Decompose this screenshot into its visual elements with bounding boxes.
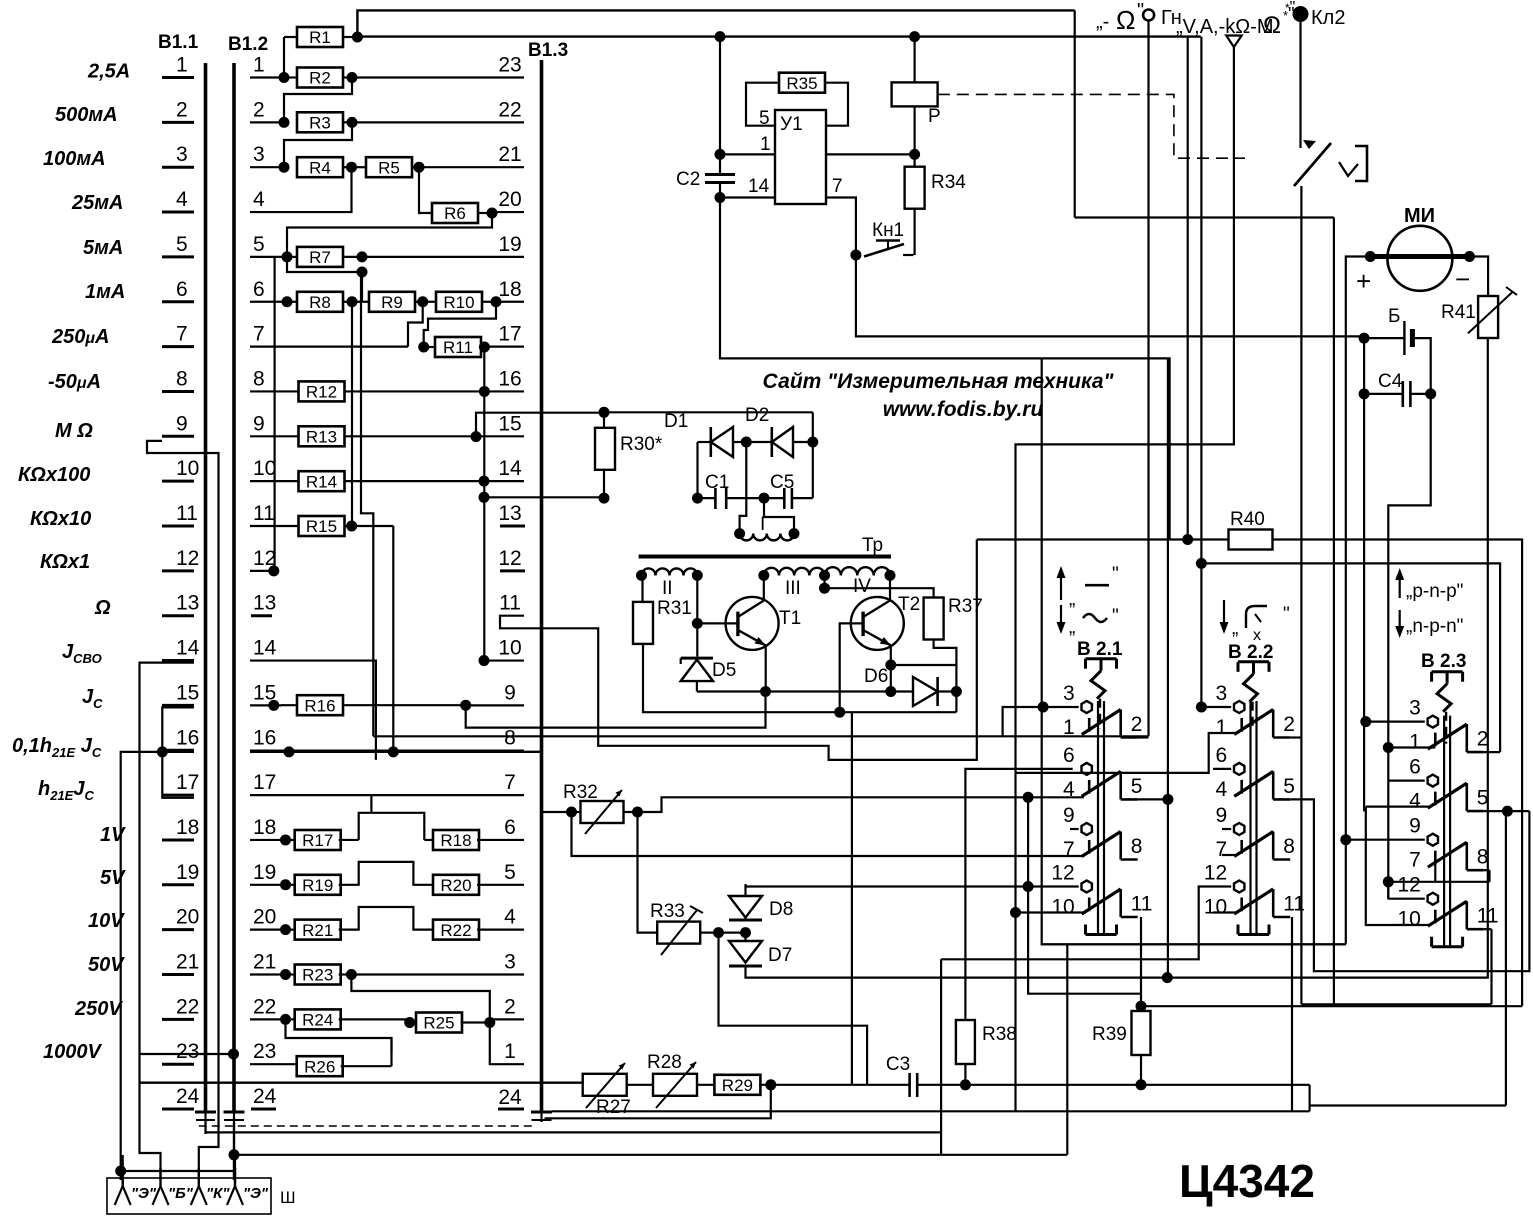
svg-text:Т2: Т2	[898, 594, 920, 615]
svg-text:„: „	[1069, 617, 1075, 638]
wire R37 bottom jog	[934, 640, 957, 713]
bus B1.1 vertical	[204, 63, 208, 1112]
wire row11 B1.2	[250, 525, 299, 527]
wire R17 stair	[359, 813, 425, 840]
wire B1.3 row10	[484, 659, 524, 661]
bus B1.2 tail to socket	[233, 1122, 235, 1180]
wire R24 jog down	[286, 1019, 392, 1051]
svg-text:2: 2	[253, 98, 265, 121]
junction Kn1 left	[850, 250, 861, 261]
wire R23 stair down	[351, 975, 489, 1023]
wire row9 B1.2	[250, 435, 299, 437]
wire pin5 loop	[746, 83, 780, 126]
wire row16 to socket	[121, 752, 194, 1180]
svg-text:R4: R4	[309, 158, 331, 177]
wire R13 line right	[604, 411, 813, 413]
svg-text:24: 24	[253, 1085, 277, 1108]
wire x1043 lower	[1042, 707, 1346, 944]
transistor T2	[851, 597, 904, 650]
wire C2 top drop	[719, 37, 721, 155]
wire meter left	[1346, 257, 1371, 945]
svg-text:R22: R22	[440, 921, 471, 940]
svg-text:R11: R11	[443, 338, 473, 357]
svg-text:R21: R21	[302, 921, 333, 940]
B2.2 pin11 drop	[1291, 917, 1293, 1111]
svg-text:Кн1: Кн1	[872, 220, 904, 241]
svg-text:1: 1	[253, 54, 265, 77]
svg-text:У1: У1	[780, 114, 803, 135]
resistor R25	[416, 1013, 462, 1033]
svg-text:КΩх1: КΩх1	[40, 551, 90, 573]
svg-text:Ω: Ω	[1263, 12, 1281, 39]
junction R8 out	[347, 296, 358, 307]
svg-text:R19: R19	[302, 876, 333, 895]
left range labels column	[12, 61, 130, 1064]
junction y1054 on B1.2 bus	[228, 1049, 239, 1060]
wire row5 drop	[274, 257, 276, 571]
wire R6 return	[287, 213, 492, 257]
wire B1.3 row20	[492, 211, 524, 213]
resistor R9	[352, 301, 369, 303]
svg-text:R18: R18	[440, 831, 471, 850]
wire T2 collector	[889, 575, 891, 600]
wire y563 line	[1201, 563, 1500, 752]
svg-text:4: 4	[1409, 790, 1421, 813]
resistor R22	[433, 920, 479, 940]
wire pin1	[720, 153, 775, 155]
svg-text:9: 9	[1409, 815, 1421, 838]
svg-text:КΩх100: КΩх100	[18, 464, 90, 486]
junction row21	[280, 969, 291, 980]
selector B2.3 frame	[1432, 670, 1463, 673]
wire row15 B1.2	[250, 704, 274, 706]
svg-text:5: 5	[176, 233, 188, 256]
wire T1 collector	[763, 575, 765, 600]
junction R9 out	[417, 296, 428, 307]
svg-text:3: 3	[1216, 682, 1228, 705]
svg-text:15: 15	[176, 681, 199, 704]
svg-text:Сайт "Измерительная техника": Сайт "Измерительная техника"	[762, 370, 1114, 393]
svg-text:B1.3: B1.3	[528, 40, 568, 61]
svg-text:5: 5	[504, 861, 516, 884]
wire P to R34	[913, 106, 915, 167]
svg-text:": "	[1112, 606, 1119, 627]
svg-text:D8: D8	[769, 899, 793, 920]
wire top bus lower y37	[357, 35, 1200, 37]
svg-text:20: 20	[498, 188, 521, 211]
svg-text:1: 1	[504, 1040, 516, 1063]
junction R32 out	[632, 807, 643, 818]
wire meter right	[1470, 257, 1489, 297]
switch wafer B1.1 contacts 1-24	[162, 54, 200, 1110]
junction row6	[282, 296, 293, 307]
wire row22	[250, 1018, 286, 1020]
wire R7par to R9	[361, 272, 363, 302]
junction T1 emitter	[760, 686, 771, 697]
svg-text:МИ: МИ	[1404, 205, 1435, 227]
wire y959 run	[941, 887, 1231, 960]
svg-text:R5: R5	[378, 158, 400, 177]
socket pin Э2	[234, 1168, 236, 1186]
bus B1.2 bottom T-cap	[224, 1111, 245, 1114]
wire R40 right	[1273, 540, 1523, 1007]
junction row18	[280, 834, 291, 845]
wire D1 drop	[696, 442, 698, 498]
B2.2 mode arrow	[1223, 600, 1225, 630]
svg-text:17: 17	[498, 323, 521, 346]
svg-text:17: 17	[176, 771, 199, 794]
junction R4 out	[346, 162, 357, 173]
svg-text:10: 10	[1204, 896, 1227, 919]
svg-text:R34: R34	[931, 172, 966, 193]
capacitor C4	[1402, 381, 1405, 407]
svg-text:2: 2	[1477, 728, 1489, 751]
svg-text:2: 2	[1131, 713, 1143, 736]
svg-text:R29: R29	[722, 1076, 753, 1095]
svg-text:Тр: Тр	[862, 535, 883, 556]
junction R14 out	[479, 476, 490, 487]
svg-text:R14: R14	[306, 472, 337, 491]
svg-text:18: 18	[253, 816, 276, 839]
transistor T1	[726, 597, 779, 650]
svg-text:22: 22	[176, 995, 199, 1018]
junction R11 out	[479, 342, 490, 353]
wire row19	[250, 884, 286, 886]
svg-text:х: х	[1253, 627, 1261, 644]
svg-text:4: 4	[176, 188, 188, 211]
junction C2 top line	[715, 31, 726, 42]
svg-text:23: 23	[253, 1040, 276, 1063]
wire R29 drop	[545, 1085, 771, 1119]
junction R39 top	[1136, 1001, 1147, 1012]
svg-text:R24: R24	[302, 1011, 333, 1030]
B2.1 mode arrows	[1060, 570, 1062, 600]
svg-text:21: 21	[498, 143, 521, 166]
svg-text:R40: R40	[1230, 509, 1265, 530]
svg-text:11: 11	[1131, 893, 1153, 916]
wire pin14	[720, 196, 775, 198]
svg-text:20: 20	[176, 906, 199, 929]
svg-text:B 2.1: B 2.1	[1077, 639, 1123, 660]
junction D7line x1168	[1162, 972, 1173, 983]
resistor R4	[297, 157, 343, 177]
junction lower parallel	[357, 267, 368, 278]
resistor R10	[423, 301, 436, 303]
wire row17 B1.2 / B1.3 row7	[250, 794, 371, 796]
svg-text:21: 21	[176, 951, 199, 974]
junction C3-R38	[960, 1079, 971, 1090]
junction R3 out	[347, 117, 358, 128]
svg-text:II: II	[662, 578, 673, 599]
svg-text:-50μА: -50μА	[48, 371, 101, 393]
svg-text:6: 6	[1063, 744, 1075, 767]
resistor R6	[432, 203, 478, 223]
wire y1054 link	[140, 1053, 234, 1055]
wire R2-R3 jog	[284, 78, 352, 123]
svg-text:1мА: 1мА	[85, 281, 125, 303]
junction R2 out	[347, 72, 358, 83]
svg-text:24: 24	[176, 1085, 200, 1108]
B2.3 pad12 wire	[1388, 898, 1425, 900]
bus B1.3 vertical	[540, 60, 544, 1112]
B2.3 pin4 wire	[1366, 805, 1430, 807]
switch Kl2	[1294, 143, 1331, 186]
capacitor C3	[908, 1073, 911, 1097]
svg-text:"Э": "Э"	[243, 1185, 269, 1202]
svg-text:R38: R38	[982, 1024, 1017, 1045]
wire R7 parallel lower	[287, 257, 362, 272]
svg-text:3: 3	[1409, 697, 1421, 720]
svg-text:8: 8	[1283, 835, 1295, 858]
junction R7 out	[357, 251, 368, 262]
wire B1.3 row23	[352, 76, 524, 78]
wire D2 right drop	[812, 412, 814, 442]
svg-text:3: 3	[176, 143, 188, 166]
svg-text:D7: D7	[768, 945, 792, 966]
junction row19	[280, 879, 291, 890]
svg-text:R31: R31	[657, 598, 692, 619]
wire C4 drop	[1388, 394, 1430, 900]
B2.1 pin2 riser	[1138, 736, 1149, 738]
B2.3 pin11 ext	[1484, 928, 1492, 930]
svg-text:R23: R23	[302, 966, 333, 985]
svg-text:19: 19	[176, 861, 199, 884]
junction D2 out	[807, 437, 818, 448]
junction pin14	[715, 192, 726, 203]
svg-text:„: „	[1069, 589, 1075, 610]
svg-text:*": *"	[1285, 0, 1295, 16]
svg-text:": "	[1283, 604, 1290, 625]
junction C4 right	[1425, 388, 1436, 399]
svg-text:250μА: 250μА	[51, 326, 109, 348]
svg-text:III: III	[785, 578, 801, 599]
svg-text:R37: R37	[948, 596, 983, 617]
svg-text:9: 9	[253, 412, 265, 435]
svg-text:7: 7	[253, 323, 265, 346]
resistor R3	[297, 112, 343, 132]
svg-text:11: 11	[1283, 893, 1305, 916]
junction pad3 B2.1	[1038, 702, 1049, 713]
resistor R11	[424, 346, 437, 348]
wire B1.3 row21	[419, 166, 524, 168]
wire top bus upper	[357, 10, 1074, 37]
svg-text:8: 8	[253, 367, 265, 390]
svg-text:20: 20	[253, 906, 276, 929]
wire row23	[250, 1063, 299, 1065]
svg-text:1: 1	[1216, 716, 1228, 739]
svg-text:14: 14	[498, 457, 522, 480]
resistor R2	[284, 76, 297, 78]
svg-text:1: 1	[1409, 731, 1421, 754]
wire R26 up jog	[390, 1038, 392, 1066]
svg-text:18: 18	[498, 278, 521, 301]
B2.3 pin8 ext	[1484, 869, 1490, 871]
B2.1 pin5 ext	[1138, 798, 1168, 800]
svg-text:1: 1	[760, 134, 771, 155]
wire row8 B1.2	[250, 390, 299, 392]
wire R31 bottom	[643, 644, 956, 712]
svg-text:5: 5	[1131, 775, 1143, 798]
svg-text:12: 12	[498, 547, 521, 570]
svg-text:7: 7	[176, 323, 188, 346]
B2.3 pad9 wire	[1346, 839, 1425, 841]
svg-text:R32: R32	[563, 782, 598, 803]
wire III-IV tap	[823, 575, 825, 588]
wire B1.3 row2	[490, 1018, 524, 1020]
svg-text:D1: D1	[664, 411, 688, 432]
wire bottom jog right	[1308, 1085, 1310, 1112]
B2.2 pin7 stub	[1222, 854, 1236, 856]
resistor R35	[779, 73, 825, 93]
resistor R12	[299, 381, 345, 401]
wire R5 to R6	[419, 167, 433, 213]
B2.1 pad3 wire	[1043, 706, 1079, 708]
svg-text:14: 14	[748, 176, 770, 197]
B2.3 pin5 ext	[1484, 810, 1530, 812]
junction B2.3 pin1	[1383, 742, 1394, 753]
B2.3 pin10 wire	[1366, 807, 1430, 925]
junction row1	[279, 72, 290, 83]
junction row20	[280, 924, 291, 935]
wire R29-C3	[759, 1084, 910, 1086]
junction B2.3 pin5	[1502, 806, 1513, 817]
diode D2	[770, 427, 773, 457]
svg-text:4: 4	[1216, 778, 1228, 801]
resistor R14	[299, 471, 345, 491]
wire row10 B1.2	[250, 480, 299, 482]
svg-text:8: 8	[176, 367, 188, 390]
svg-text:13: 13	[253, 592, 276, 615]
wire R8 drop pair a	[351, 302, 353, 526]
wire R39 line right	[1141, 1005, 1522, 1007]
B2.1 pin11 drop	[1140, 917, 1142, 1006]
svg-text:11: 11	[176, 502, 198, 525]
svg-text:12: 12	[1397, 874, 1420, 897]
wire R11-R12 drop	[483, 347, 485, 660]
wire x1168 drop	[1167, 358, 1169, 977]
svg-text:10: 10	[253, 457, 276, 480]
wire B1.3 row22	[352, 121, 524, 123]
svg-text:R16: R16	[304, 696, 335, 715]
junction pin1 right	[909, 149, 920, 160]
junction D6 left	[885, 686, 896, 697]
wire T1 emitter drop	[765, 646, 767, 692]
svg-text:R25: R25	[423, 1014, 454, 1033]
svg-text:500мА: 500мА	[55, 104, 118, 126]
transformer core	[639, 555, 891, 559]
resistor R32 variable	[572, 811, 581, 813]
wire row14 branch y1082	[140, 1081, 542, 1083]
wire B2.3 common drop	[1363, 338, 1365, 811]
resistor R39	[1132, 1011, 1151, 1055]
resistor R7	[287, 256, 297, 258]
svg-text:"Б": "Б"	[168, 1185, 194, 1202]
terminal Kl2	[1293, 6, 1309, 22]
junction y563	[1196, 558, 1207, 569]
junction D7D8	[740, 927, 751, 938]
wire row24 long	[552, 1110, 1310, 1112]
wire R27-R28	[627, 1084, 654, 1086]
svg-text:Б: Б	[1388, 306, 1400, 327]
IC U1 box	[775, 110, 826, 204]
svg-text:8: 8	[504, 726, 516, 749]
wire emitter rail	[697, 690, 891, 692]
diode D6	[913, 677, 938, 706]
junction row12	[268, 565, 279, 576]
svg-text:6: 6	[1216, 744, 1228, 767]
svg-text:3: 3	[253, 143, 265, 166]
wire R27 feed	[542, 1081, 584, 1083]
resistor R13	[299, 426, 345, 446]
junction row2	[279, 117, 290, 128]
svg-text:R20: R20	[440, 876, 471, 895]
secondary coil II	[642, 568, 656, 575]
wire B1.3 row11 jog	[500, 540, 977, 760]
B2.1 pin10 wire	[1016, 911, 1084, 913]
wire row3 B1.2	[250, 166, 284, 168]
wire B1.3 row8	[524, 751, 542, 753]
socket pin Б	[159, 1168, 161, 1186]
svg-text:12: 12	[1204, 862, 1227, 885]
wire C3 right	[917, 1084, 1309, 1086]
wire mid coil tap	[740, 442, 747, 534]
svg-text:9: 9	[1216, 804, 1228, 827]
resistor R24	[286, 1018, 297, 1020]
junction row10 B1.3	[479, 655, 490, 666]
svg-text:22: 22	[498, 98, 521, 121]
svg-text:8: 8	[1477, 846, 1489, 869]
svg-text:www.fodis.by.ru: www.fodis.by.ru	[883, 398, 1044, 421]
wire B1.3 row18	[496, 301, 524, 303]
svg-text:„p-n-p": „p-n-p"	[1406, 581, 1463, 602]
junction R30 bottom	[599, 493, 610, 504]
svg-text:Т1: Т1	[779, 608, 801, 629]
wire row7 B1.2	[250, 346, 408, 348]
svg-text:7: 7	[1409, 849, 1421, 872]
wire D8 top	[746, 885, 1079, 887]
wire R32 out	[624, 811, 638, 813]
svg-text:R1: R1	[309, 28, 331, 47]
resistor R15	[299, 516, 345, 536]
junction B1.2 tail	[229, 1149, 240, 1160]
wire y736 long	[373, 735, 1148, 737]
wire R21 stair	[339, 907, 436, 930]
terminal Gn	[1143, 10, 1154, 21]
resistor R16	[274, 704, 282, 706]
selector B2.1 frame	[1086, 657, 1117, 660]
wire battery right	[1412, 338, 1430, 394]
svg-text:3: 3	[1063, 682, 1075, 705]
wire B1.3 row16	[484, 390, 524, 392]
svg-text:12: 12	[1051, 862, 1074, 885]
svg-text:100мА: 100мА	[43, 148, 106, 170]
svg-text:22: 22	[253, 995, 276, 1018]
wire row14 B1.2 drop	[250, 661, 376, 760]
junction R32 in	[566, 807, 577, 818]
wire socket emitter bond	[121, 1170, 235, 1172]
resistor R27 variable	[583, 1074, 627, 1096]
wire row20	[250, 929, 286, 931]
junction R23 out	[346, 969, 357, 980]
socket pin К	[198, 1168, 200, 1186]
svg-text:Ш: Ш	[280, 1188, 296, 1207]
svg-text:R12: R12	[306, 383, 337, 402]
wire R15 out right	[352, 525, 394, 527]
junction socket emitter	[115, 1166, 126, 1177]
svg-text:+: +	[1356, 266, 1371, 296]
wire row16 cont	[524, 751, 542, 753]
junction row5	[282, 251, 293, 262]
